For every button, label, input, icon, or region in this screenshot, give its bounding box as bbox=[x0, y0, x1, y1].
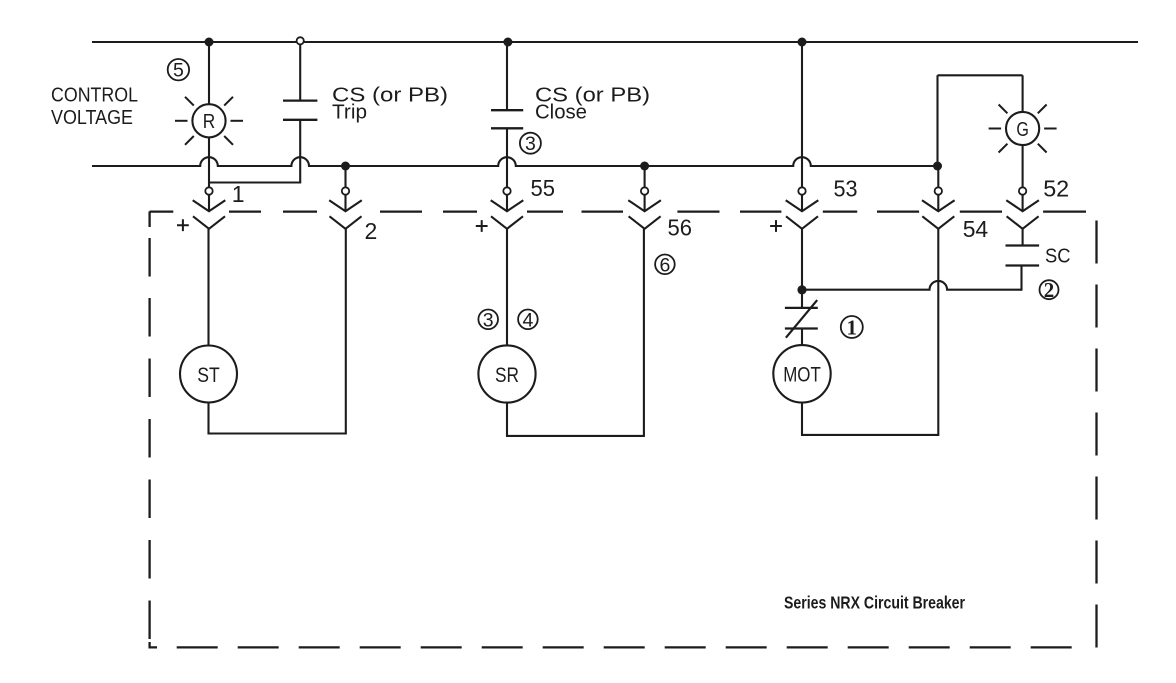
secondary terminal 55 circle bbox=[503, 187, 510, 194]
svg-text:1: 1 bbox=[847, 315, 858, 339]
drawout disconnect contact 1 bbox=[193, 200, 226, 211]
callout 6 (circled) at 56 bbox=[655, 254, 675, 274]
wire disconnect link to motor bbox=[801, 329, 803, 346]
wire terminal 1 to coil ST bbox=[207, 229, 209, 346]
polarity + at terminal 1 bbox=[177, 219, 189, 231]
junction motor / SC link bbox=[797, 285, 806, 294]
callout 1 (circled) bbox=[841, 316, 863, 338]
wire capacitor SC to SC link bbox=[1020, 266, 1022, 291]
svg-text:Close: Close bbox=[535, 101, 587, 123]
wire terminal 53 into drawout contact bbox=[801, 195, 803, 211]
secondary terminal 56 circle bbox=[641, 187, 648, 194]
motor disconnect link upper tick bbox=[785, 307, 818, 309]
dashed cradle boundary right edge bbox=[1095, 221, 1097, 264]
wire terminal 54 into drawout contact bbox=[937, 195, 939, 211]
junction top bus / R-lamp drop bbox=[205, 38, 214, 47]
drawout disconnect contact 54 bbox=[922, 200, 955, 211]
wire top bus to lamp R bbox=[208, 42, 210, 104]
wire motor return loop bbox=[802, 229, 938, 435]
wire coil SR return loop bbox=[507, 228, 644, 436]
junction top bus / 53 drop bbox=[798, 38, 807, 47]
indicating lamp G (green) bbox=[1006, 112, 1039, 145]
callout 3 (circled) at Close bbox=[520, 133, 541, 154]
wire terminal 2 into drawout contact bbox=[344, 195, 346, 211]
svg-text:54: 54 bbox=[963, 216, 989, 242]
pushbutton contact CS (or PB) Close bbox=[491, 109, 523, 111]
dashed cradle boundary top edge bbox=[150, 210, 174, 212]
svg-text:SC: SC bbox=[1045, 245, 1071, 267]
wire jog from Trip to terminal 1 drop bbox=[208, 181, 301, 183]
wire G-lamp branch to lower bus end bbox=[936, 75, 938, 166]
wire terminal 55 to coil SR bbox=[506, 229, 508, 346]
junction top bus / Close drop bbox=[503, 38, 512, 47]
wire terminal 55 into drawout contact bbox=[506, 195, 508, 211]
motor disconnect link slash bbox=[786, 300, 817, 338]
wire CS Trip down to jog bbox=[299, 120, 301, 183]
svg-text:3: 3 bbox=[483, 309, 494, 331]
svg-text:2: 2 bbox=[365, 218, 378, 244]
indicating lamp R (red) bbox=[192, 104, 225, 137]
drawout disconnect contact 52 bbox=[1006, 200, 1039, 211]
wire CS Close to terminal 55 bbox=[506, 128, 508, 187]
wire terminal 53 to motor junction bbox=[801, 229, 803, 290]
junction lower bus / terminal 2 drop bbox=[341, 162, 350, 171]
callout 5 (circled) bbox=[168, 59, 189, 80]
svg-text:56: 56 bbox=[668, 215, 693, 241]
wire junction to disconnect link bbox=[801, 290, 803, 308]
dashed cradle boundary bottom edge bbox=[177, 646, 218, 648]
wire lower bus to terminal 56 bbox=[644, 166, 646, 187]
secondary terminal 2 circle bbox=[342, 187, 349, 194]
wire top control-voltage bus bbox=[92, 41, 1138, 43]
svg-text:SR: SR bbox=[495, 364, 519, 387]
svg-text:53: 53 bbox=[834, 176, 858, 202]
secondary terminal 54 circle bbox=[935, 187, 942, 194]
wire top bus to CS Trip contact bbox=[299, 44, 301, 100]
wire top bus to CS Close contact bbox=[506, 42, 508, 110]
svg-text:55: 55 bbox=[531, 175, 556, 201]
drawout disconnect contact 2 bbox=[329, 200, 362, 211]
wire terminal 52 to capacitor SC bbox=[1022, 229, 1024, 246]
secondary terminal 53 circle bbox=[798, 187, 805, 194]
terminal circle top bus / Trip contact bbox=[297, 37, 304, 44]
svg-text:5: 5 bbox=[173, 60, 184, 82]
svg-text:CONTROL: CONTROL bbox=[51, 84, 138, 106]
svg-text:ST: ST bbox=[197, 364, 220, 387]
wire terminal 1 into drawout contact bbox=[208, 195, 210, 211]
svg-text:R: R bbox=[203, 110, 216, 133]
wire top bus to terminal 53 bbox=[801, 42, 803, 187]
wire lower bus to terminal 54 bbox=[937, 166, 939, 187]
drawout disconnect contact 53 bbox=[786, 200, 819, 211]
svg-text:VOLTAGE: VOLTAGE bbox=[51, 107, 133, 129]
svg-text:6: 6 bbox=[659, 254, 670, 276]
svg-text:52: 52 bbox=[1043, 176, 1069, 202]
wire coil ST return loop bbox=[209, 228, 346, 433]
drawout disconnect contact 56 bbox=[628, 200, 661, 211]
wire lower bus to terminal 2 bbox=[344, 166, 346, 187]
secondary terminal 1 circle bbox=[205, 187, 212, 194]
junction right end of lower bus / G-lamp branch bbox=[933, 162, 942, 171]
wire lower control-voltage bus with hops at drops 1, Trip, 55 and 53 bbox=[92, 157, 938, 166]
callout 4 (circled) at SR bbox=[518, 310, 538, 330]
secondary terminal 52 circle bbox=[1019, 187, 1026, 194]
svg-text:Trip: Trip bbox=[332, 102, 367, 124]
drawout disconnect contact 55 bbox=[491, 200, 524, 211]
svg-text:MOT: MOT bbox=[783, 364, 821, 387]
polarity + at terminal 53 bbox=[770, 220, 782, 232]
spring release coil SR bbox=[478, 345, 535, 402]
wire down to lamp G bbox=[1022, 75, 1024, 112]
wire G-lamp branch horizontal bbox=[938, 74, 1023, 76]
junction lower bus / terminal 56 drop bbox=[640, 162, 649, 171]
svg-text:2: 2 bbox=[1044, 278, 1055, 302]
shunt trip coil ST bbox=[180, 346, 237, 403]
svg-text:1: 1 bbox=[232, 181, 245, 207]
motor disconnect link lower tick bbox=[785, 327, 818, 329]
capacitor SC bbox=[1006, 244, 1040, 246]
svg-text:3: 3 bbox=[525, 133, 536, 155]
svg-text:G: G bbox=[1016, 118, 1029, 141]
pushbutton contact CS (or PB) Trip bbox=[283, 99, 317, 101]
wire SC link with hop over motor return bbox=[806, 281, 1022, 290]
callout 2 (circled) bbox=[1040, 280, 1059, 299]
wire terminal 52 into drawout contact bbox=[1022, 195, 1024, 211]
svg-text:4: 4 bbox=[522, 309, 533, 331]
wire lamp G to terminal 52 bbox=[1022, 145, 1024, 187]
spring charging motor MOT bbox=[773, 345, 830, 402]
polarity + at terminal 55 bbox=[476, 220, 488, 232]
callout 3 (circled) at SR bbox=[478, 310, 498, 330]
wire terminal 56 into drawout contact bbox=[644, 195, 646, 211]
wire lamp R to terminal 1 bbox=[208, 137, 210, 187]
svg-text:Series NRX Circuit Breaker: Series NRX Circuit Breaker bbox=[784, 593, 965, 613]
dashed cradle boundary left edge bbox=[148, 211, 150, 227]
